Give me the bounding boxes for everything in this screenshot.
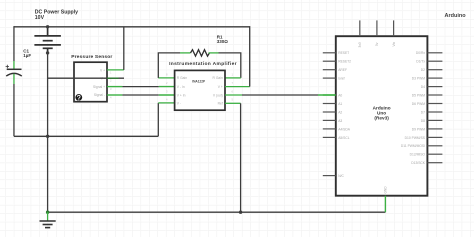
svg-text:V - In: V - In [177, 85, 185, 89]
ground [40, 212, 56, 227]
svg-text:Pressure Sensor: Pressure Sensor [71, 54, 112, 60]
pin arduino D6 PWM [412, 102, 443, 106]
svg-text:A2: A2 [338, 110, 342, 114]
pin arduino A2 [323, 110, 343, 114]
svg-text:330Ω: 330Ω [217, 39, 229, 44]
svg-text:A5/SCL: A5/SCL [338, 136, 350, 140]
svg-text:D12/MISO: D12/MISO [410, 153, 426, 157]
label DC Power Supply [35, 10, 78, 21]
pin arduino D2 [421, 68, 443, 72]
svg-text:ioref: ioref [338, 77, 344, 81]
pin arduino D7 [421, 110, 443, 114]
svg-text:1µF: 1µF [23, 53, 31, 58]
svg-text:D0/Rx: D0/Rx [416, 51, 426, 55]
svg-text:(Rev3): (Rev3) [374, 116, 389, 121]
svg-text:D5 PWM: D5 PWM [412, 93, 425, 97]
svg-text:D1/Tx: D1/Tx [416, 60, 425, 64]
IC U3 Arduino Uno box [336, 36, 428, 196]
svg-text:Vin: Vin [392, 42, 396, 47]
svg-text:D10 PWM/SS: D10 PWM/SS [405, 136, 426, 140]
svg-text:Instrumentation Amplifier: Instrumentation Amplifier [169, 61, 237, 67]
svg-text:Signal -: Signal - [94, 93, 105, 97]
wire left vertical from top rail to C1 top [13, 26, 15, 69]
node gnd symbol junction [46, 211, 49, 214]
wire R gain loop [158, 53, 241, 78]
svg-text:RESET: RESET [338, 51, 349, 55]
pin arduino D1/Tx [416, 60, 442, 64]
pin arduino A0 green [323, 93, 343, 97]
pin arduino D11 PWM/MOSI [401, 144, 443, 148]
svg-text:D3 PWM: D3 PWM [412, 77, 425, 81]
wire sensor Signal+ to amp V-In [107, 86, 175, 88]
svg-text:R Gain: R Gain [177, 76, 187, 80]
wire C1 bottom to gnd rail [13, 74, 15, 137]
wire sensor V+ to top rail [107, 27, 124, 70]
svg-text:5v: 5v [375, 42, 379, 46]
wire sensor V- crossing to battery minus [48, 77, 124, 79]
wire top +10V rail [14, 26, 250, 28]
svg-text:GND: GND [384, 186, 388, 194]
pin arduino top 5v [375, 20, 379, 46]
wire amp Vout to arduino A0 [225, 94, 336, 96]
svg-text:Signal +: Signal + [93, 85, 105, 89]
label C1 1uF [23, 49, 31, 59]
node Ref gnd junction [239, 211, 242, 214]
pin arduino top 3v3 [358, 20, 362, 47]
pin arduino D13/SCK [411, 161, 442, 165]
wire mid horizontal gnd branch [14, 135, 158, 137]
pin arduino RESET2 [323, 60, 351, 64]
label Instrumentation Amplifier [169, 61, 237, 67]
pin arduino GND green to gnd rail [384, 186, 388, 212]
wire sensor Signal- to amp V+In [107, 94, 175, 96]
pin arduino ioref [323, 77, 345, 81]
svg-text:D7: D7 [421, 110, 425, 114]
icon question mark on sensor [75, 94, 82, 101]
pin arduino D9 PWM [412, 127, 443, 131]
pin arduino A4/SDA [323, 127, 351, 131]
svg-text:A3: A3 [338, 119, 342, 123]
svg-text:V -: V - [177, 102, 181, 106]
svg-text:D9 PWM: D9 PWM [412, 127, 425, 131]
pin arduino AREF [323, 68, 347, 72]
wire amp V+ to top rail [225, 26, 250, 86]
svg-text:D4: D4 [421, 85, 425, 89]
svg-text:A1: A1 [338, 102, 342, 106]
svg-text:3v3: 3v3 [358, 42, 362, 47]
svg-text:INA122P: INA122P [192, 79, 206, 83]
pin arduino D3 PWM [412, 77, 443, 81]
svg-text:R Gain: R Gain [213, 76, 223, 80]
pin arduino D10 PWM/SS [405, 136, 443, 140]
svg-text:A4/SDA: A4/SDA [338, 127, 351, 131]
battery V1 DC power supply [34, 27, 61, 53]
svg-text:N/C: N/C [338, 174, 344, 178]
svg-text:D13/SCK: D13/SCK [411, 161, 426, 165]
pin arduino D8 [421, 119, 443, 123]
label Arduino [445, 13, 467, 19]
svg-text:V +: V + [218, 85, 223, 89]
svg-text:V +: V + [100, 68, 105, 72]
label R1 330ohm [217, 35, 229, 45]
resistor R1 [180, 50, 219, 56]
pin arduino D5 PWM [412, 93, 443, 97]
svg-text:A0: A0 [338, 93, 342, 97]
pin arduino RESET [323, 51, 349, 55]
pressure sensor U2 box [74, 62, 112, 101]
wire bottom gnd rail [48, 211, 386, 213]
wire battery minus vertical to ground [47, 53, 49, 212]
pin arduino A5/SCL [323, 136, 350, 140]
pin arduino A1 [323, 102, 343, 106]
pin arduino D4 [421, 85, 443, 89]
svg-text:D8: D8 [421, 119, 425, 123]
node battery plus junction [46, 25, 49, 28]
pin arduino N/C [323, 174, 345, 178]
svg-text:D11 PWM/MOSI: D11 PWM/MOSI [401, 144, 425, 148]
svg-text:D2: D2 [421, 68, 425, 72]
svg-text:RESET2: RESET2 [338, 60, 351, 64]
pin arduino D12/MISO [410, 153, 443, 157]
pin arduino A3 [323, 119, 343, 123]
svg-text:10V: 10V [35, 15, 45, 21]
pin arduino top Vin [392, 20, 396, 46]
pin arduino D0/Rx [416, 51, 443, 55]
svg-text:AREF: AREF [338, 68, 347, 72]
node battery minus junction [46, 51, 49, 54]
svg-text:Ref: Ref [218, 102, 223, 106]
svg-text:Arduino: Arduino [445, 13, 467, 19]
capacitor C1 polarized [6, 65, 22, 76]
op-amp U1 INA122P [166, 70, 234, 110]
wire amp Ref to gnd rail [225, 103, 241, 212]
svg-text:D6 PWM: D6 PWM [412, 102, 425, 106]
svg-text:V + In: V + In [177, 93, 186, 97]
label Pressure Sensor [71, 54, 112, 60]
svg-text:V (out): V (out) [213, 93, 223, 97]
wire amp V- to gnd branch [158, 103, 174, 136]
node gnd branch junction [46, 135, 49, 138]
